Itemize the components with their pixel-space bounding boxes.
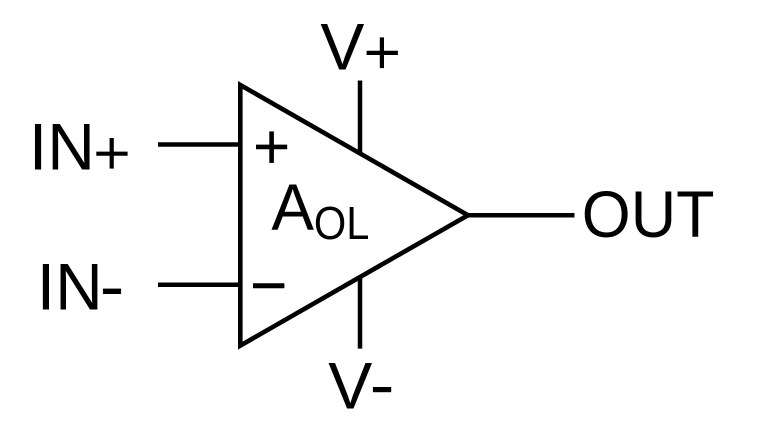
op-amp U1 (triangle body)	[240, 85, 468, 346]
svg-text:V: V	[320, 10, 364, 84]
wire IN+ to op-amp	[158, 142, 240, 147]
op-amp inverting input marker -	[253, 283, 284, 288]
wire V+ supply down to op-amp top edge	[358, 81, 363, 155]
svg-text:IN: IN	[29, 109, 95, 183]
svg-text:OL: OL	[314, 197, 370, 249]
svg-text:OUT: OUT	[582, 177, 715, 251]
op-amp non-inverting input marker +	[256, 131, 287, 163]
wire IN- to op-amp	[158, 282, 240, 287]
node label V- (drawn hyphen)	[373, 387, 391, 392]
svg-text:V: V	[328, 348, 372, 422]
node label IN+ (drawn plus)	[96, 138, 127, 169]
gain label A_OL inside op-amp	[271, 170, 369, 249]
svg-text:IN: IN	[37, 250, 103, 324]
svg-text:A: A	[271, 170, 314, 244]
node label IN- (drawn hyphen)	[103, 289, 121, 294]
wire op-amp output to OUT	[466, 213, 575, 218]
node label V+ (drawn plus)	[367, 37, 398, 68]
wire V- supply up to op-amp bottom edge	[358, 277, 363, 349]
